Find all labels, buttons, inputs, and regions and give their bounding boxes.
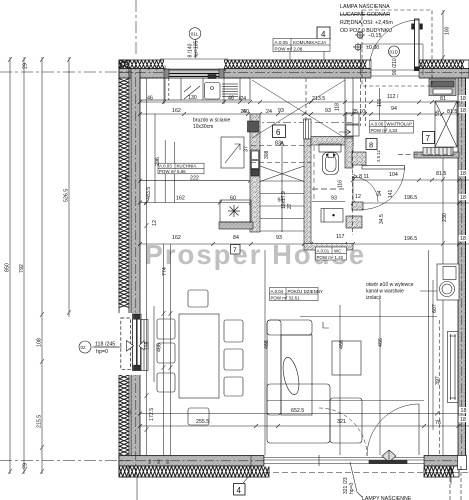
elevation -0,15 [355,31,365,39]
svg-text:OD POZ.0 BUDYNKU: OD POZ.0 BUDYNKU [340,28,392,34]
svg-text:25 10: 25 10 [352,109,365,115]
svg-text:466: 466 [339,340,345,349]
right wall bottom cap [458,456,467,470]
marker4 top leader [323,40,325,60]
pokoj dzienny label [270,288,323,301]
svg-text:141: 141 [388,189,394,198]
svg-text:94: 94 [377,190,383,196]
window 01L frame [160,59,228,78]
chair bottom [188,408,209,425]
svg-text:18: 18 [460,417,466,423]
svg-text:90: 90 [162,65,167,70]
radiator squares row [423,148,453,156]
chain y=244 right [353,243,469,245]
W1 flue dark box [248,121,259,132]
svg-text:WIATROŁAP: WIATROŁAP [387,122,413,127]
wiatrolap south wall [414,152,459,158]
entry landing [361,44,424,75]
svg-text:296: 296 [155,157,161,166]
svg-text:4: 4 [237,486,242,495]
left dim line 792 [23,57,25,474]
kitchen sink [205,83,221,100]
sofa corner module [267,384,330,443]
svg-text:18: 18 [460,108,466,114]
shaft cross brace [435,101,457,147]
svg-text:POW m² 32,61: POW m² 32,61 [271,296,301,301]
sink drainer [222,84,238,97]
komunikacja label leader [289,51,291,60]
interior chain x=146.5 [146,78,148,455]
svg-text:162: 162 [176,196,185,202]
elevation 0,00 [353,43,363,51]
kuchnia label [158,163,204,174]
svg-text:652.5: 652.5 [291,408,304,414]
wiatrolap wardrobe boxes [346,113,359,124]
kitchen vlines [164,140,166,203]
left chain ticks [40,310,71,450]
svg-text:LAMPA NAŚCIENNA: LAMPA NAŚCIENNA [340,2,390,10]
bottom wall insulation right corner [424,466,459,477]
window01L leader [195,39,197,58]
wc south wall [304,244,353,251]
svg-text:−0,15: −0,15 [368,33,381,39]
wc east wall upper [345,138,353,168]
komunikacja dashed boundary [305,78,307,123]
svg-text:93: 93 [278,198,284,204]
corridor dash-dot [251,122,352,124]
left dim line 526.5 [68,57,70,317]
window 02 marker [79,341,91,353]
svg-text:POW m² 4,33: POW m² 4,33 [371,128,398,133]
window marker 01L [189,28,201,40]
svg-text:55: 55 [435,110,441,116]
svg-text:10x30cm: 10x30cm [193,124,213,130]
svg-text:A.0.05: A.0.05 [275,40,289,45]
chain y=244 [140,243,353,245]
svg-text:607: 607 [432,304,438,313]
svg-text:774: 774 [162,267,168,276]
svg-text:24: 24 [266,109,272,115]
stairs arrow [281,142,283,232]
sofa cushion [280,356,302,396]
kitchen lower box with star [220,200,251,222]
living vline x=340 [339,305,341,455]
chairs right [224,320,243,342]
wc door leaf+arc [353,177,378,202]
svg-text:KOMUNIKACJA: KOMUNIKACJA [293,40,327,45]
wiatrolap chain y=180 [353,179,469,181]
wall stub B [352,202,363,210]
svg-text:27: 27 [287,203,293,209]
left dim arrows top [8,57,71,62]
terrace door leaf [418,404,420,455]
worktop dark under window [166,70,226,77]
kitchen dashed divider [168,78,170,100]
svg-text:116: 116 [338,180,344,188]
right radiator [448,332,459,403]
svg-text:93: 93 [325,108,331,114]
svg-text:POW m² 2,08: POW m² 2,08 [275,47,303,52]
svg-text:29: 29 [23,463,29,469]
terrace handle diamond [382,450,396,462]
marker box 4 top [317,27,330,40]
svg-text:A.0.06: A.0.06 [371,122,384,127]
right wall masonry band [458,78,466,456]
svg-text:93: 93 [276,235,282,241]
svg-text:WC: WC [334,249,341,254]
svg-text:117: 117 [336,234,344,240]
left dim arrows bottom [8,469,44,474]
svg-text:850: 850 [5,263,11,272]
vchain x=170.5 [170,244,172,455]
window radiator living [141,320,149,371]
bottom wall insulation band [119,466,269,477]
wiatrolap door to living: leaf [362,166,405,170]
svg-text:LUCARNE GODNAR: LUCARNE GODNAR [340,12,390,18]
svg-text:hp=0: hp=0 [349,483,355,494]
bottom wall masonry band right corner [424,456,459,467]
chain y=426 [140,425,469,427]
svg-text:hp=105: hp=105 [194,40,200,57]
flow arrow [339,130,351,135]
kitchen counter top run [140,78,250,100]
svg-text:01L: 01L [191,32,199,37]
svg-text:196.5: 196.5 [404,236,417,242]
marker 6 [273,125,286,138]
svg-text:24: 24 [241,109,247,115]
chair top [188,290,208,307]
svg-text:12: 12 [152,220,158,226]
svg-text:±0,00: ±0,00 [366,45,379,51]
wc washbasin [321,209,343,223]
axis dash-dot top-left [0,71,131,73]
left wall insulation band [119,60,129,477]
svg-text:162: 162 [172,235,181,241]
wc label [316,247,347,260]
chain L2 y=114 [140,113,459,115]
top wall insulation band [119,60,469,69]
wall stub C [346,216,362,228]
window 02 opening left wall [118,313,141,375]
svg-text:483.5: 483.5 [146,187,152,200]
chain y=413.5 652.5 [140,413,459,415]
svg-text:130: 130 [188,95,197,101]
right wall edge line [465,78,467,456]
svg-text:255.5: 255.5 [196,419,209,425]
W1 dark meter box [251,170,259,177]
right edge dim line x=465.5 [465,78,467,460]
svg-text:108: 108 [37,338,43,347]
axis dash-dot bottom-left [0,460,131,462]
stairs treads [260,181,304,231]
svg-text:112 /: 112 / [387,94,399,100]
interior wall W1 kitchen/stairs [250,114,260,232]
svg-text:90: 90 [146,65,151,70]
svg-text:162: 162 [172,108,181,114]
svg-text:466: 466 [264,340,270,349]
svg-text:12: 12 [355,194,361,200]
vline 101 [379,88,381,120]
entry door opening [371,59,419,79]
fridge box [221,137,244,168]
left outer dim line 850 [9,57,11,474]
svg-text:215.5: 215.5 [37,415,43,428]
svg-text:83: 83 [275,141,281,147]
right vchain x=443 [442,158,444,455]
svg-text:kanał w warstwie: kanał w warstwie [366,289,404,295]
W1 niche [251,150,260,169]
svg-text:118: 118 [145,342,151,350]
svg-text:POW m² 1,42: POW m² 1,42 [317,255,344,260]
sofa armrest top [267,320,312,335]
L mark [323,322,329,328]
chain y=203 right [353,202,469,204]
svg-text:90: 90 [154,65,159,70]
wc toilet [319,144,341,152]
right wall dashed lines below [449,466,451,500]
svg-text:8: 8 [369,141,373,150]
svg-text:90: 90 [156,459,161,464]
svg-text:7: 7 [233,247,237,254]
right vchain x=433 [432,280,434,430]
svg-text:100: 100 [445,26,451,35]
svg-text:01D: 01D [390,50,399,55]
svg-text:RZĘDNA OSI: +2,45m: RZĘDNA OSI: +2,45m [340,20,393,26]
window 01L opening [164,59,224,79]
kitchen stub wall [219,222,253,229]
svg-text:60: 60 [230,196,236,202]
svg-text:KUCHNIA: KUCHNIA [177,164,197,169]
wc north wall [311,137,353,146]
svg-text:18: 18 [460,96,466,102]
marker 4 bottom [234,484,246,496]
svg-text:81: 81 [440,96,446,102]
bottom text leader [350,462,362,497]
svg-text:46: 46 [228,96,234,102]
hob diagonal 130 [184,86,200,99]
top wall masonry band [119,69,469,79]
otwor leader [420,287,446,291]
vchain x=163.5 [163,244,165,455]
marker 8 [366,139,377,150]
marker 7 small [231,245,241,255]
svg-text:46: 46 [147,96,153,102]
svg-text:397: 397 [435,376,441,385]
svg-text:118 /245: 118 /245 [95,342,115,348]
svg-text:526.5: 526.5 [64,189,70,202]
svg-text:81.5: 81.5 [436,171,446,177]
door marker 01D [389,46,400,57]
svg-text:93: 93 [331,196,337,202]
left wall masonry band [131,69,140,459]
wall stub A wiatrolap [352,152,366,165]
window extension lines [163,78,165,104]
bottom wall masonry band left [119,456,264,467]
svg-text:POW m² 6,66: POW m² 6,66 [159,169,186,174]
kitchen chain y=202.5 [140,202,252,204]
svg-text:otwór ø10 w wylewce: otwór ø10 w wylewce [366,282,414,288]
svg-text:18: 18 [460,171,466,177]
svg-text:101: 101 [377,98,383,107]
svg-text:94: 94 [391,106,397,112]
chain L1 y=102 [140,101,459,103]
entry door swing arc [369,20,419,70]
recuperator dark unit [429,79,456,96]
faucet [208,75,216,79]
left dim line segments chain [41,57,43,474]
svg-text:222: 222 [190,176,199,182]
entry door leaf [415,19,420,70]
living vline x=265 [264,250,266,455]
stairs cross brace [260,166,304,182]
wiatrolap dashed floor line [398,154,459,156]
wc dashed zone [313,146,315,202]
svg-text:90 /210: 90 /210 [392,58,398,75]
dining table [179,314,219,398]
svg-text:466: 466 [378,338,384,347]
wall axis dash-dot lines [119,72,469,74]
svg-text:A.0.04: A.0.04 [271,289,284,294]
porch dim line 100 [442,10,444,60]
svg-text:466: 466 [157,343,163,352]
svg-text:02: 02 [81,345,87,350]
terrace dashed outside line [264,472,469,474]
svg-text:34.5: 34.5 [379,214,385,224]
terrace door leaf2 dashed arc [319,408,367,456]
svg-text:38: 38 [127,409,132,415]
axis dash-dot top [135,0,137,57]
svg-text:230: 230 [442,213,448,222]
sofa seat [281,335,312,415]
svg-text:308: 308 [264,150,270,159]
interior wall W2 stairs/wc [304,119,312,139]
svg-text:7: 7 [426,134,431,143]
entry door threshold [371,69,419,71]
stairs dashed landing lines [251,145,311,147]
window02 marker leader [92,346,119,348]
svg-text:29: 29 [23,63,29,69]
sofa back [267,320,281,415]
svg-text:2.5 12: 2.5 12 [376,149,381,162]
komunikacja label [273,39,330,52]
bottom right arrow [450,468,452,484]
svg-text:93: 93 [278,108,284,114]
vchain x=154 window [153,306,155,382]
marker4 bottom leader [243,455,251,483]
svg-text:196.5: 196.5 [404,195,417,201]
svg-text:213.5: 213.5 [312,96,325,102]
sofa floor line [267,400,424,402]
wc dashed slope line [312,188,344,190]
terrace glazing [264,455,424,466]
svg-text:38: 38 [124,174,129,180]
svg-text:84: 84 [233,235,239,241]
svg-text:18: 18 [461,408,467,414]
kitchen chain y=180.7 [140,180,250,182]
svg-text:104: 104 [389,172,398,178]
canopy dashed outline [362,10,432,86]
svg-text:90: 90 [147,459,152,464]
wiatrolap label [370,121,414,134]
marker 7 wiatrolap [423,132,435,144]
svg-text:76: 76 [435,420,441,426]
svg-text:hp=0: hp=0 [96,349,108,355]
wiatrolap door swing arc [362,167,405,210]
svg-text:81.5: 81.5 [447,109,457,115]
svg-text:bruzdo w ścianie: bruzdo w ścianie [193,118,230,124]
living vline x=380 [379,300,381,455]
svg-text:118: 118 [335,103,341,111]
corner leader bottom-left [136,477,138,500]
terrace door opening bottom [264,455,424,467]
wc chain 93 [312,201,345,203]
left wall cavity line [128,60,130,477]
svg-text:37: 37 [244,146,250,152]
svg-text:18: 18 [460,195,466,201]
boiler niche [437,264,459,300]
svg-text:792: 792 [19,264,25,273]
svg-text:172.5: 172.5 [149,408,155,421]
tv sideboard [332,341,361,375]
corridor cross mark [252,80,345,138]
svg-text:321: 321 [337,419,346,425]
svg-text:izolacji: izolacji [366,295,381,301]
chairs left [157,319,175,339]
sofa chaise [330,398,362,443]
svg-text:18: 18 [460,236,466,242]
terrace door arc [367,404,419,456]
svg-text:A.0.01: A.0.01 [317,249,330,254]
svg-text:2x 8 11: 2x 8 11 [352,174,369,180]
window 02 frame left wall [121,314,144,370]
svg-text:6: 6 [276,128,281,137]
vchain x=155 296 [154,114,156,203]
svg-text:POKÓJ DZIENNY: POKÓJ DZIENNY [288,289,323,294]
svg-text:90: 90 [165,459,170,464]
svg-text:24: 24 [241,96,247,102]
svg-text:4: 4 [321,30,326,39]
